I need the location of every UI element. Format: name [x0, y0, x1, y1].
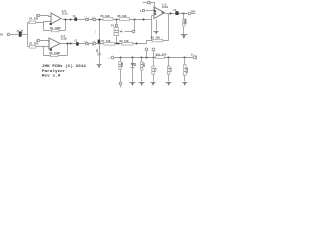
connector pad J1	[145, 48, 148, 51]
junction	[169, 12, 171, 14]
pin 2 number	[50, 23, 52, 25]
pad tick	[92, 43, 94, 46]
svg-text:D1: D1	[134, 62, 137, 66]
capacitor C7	[184, 65, 186, 76]
junction	[145, 56, 147, 58]
connector pad P1	[37, 14, 39, 16]
op-amp IC1A	[51, 13, 61, 24]
connector pad send B	[85, 42, 88, 45]
wire power rail	[114, 57, 193, 59]
svg-text:R1 22K: R1 22K	[29, 18, 38, 21]
resistor R3	[52, 29, 60, 32]
ground	[154, 31, 159, 33]
ground stub IC2	[156, 20, 158, 31]
wire	[28, 46, 50, 48]
connector tick	[150, 2, 152, 5]
ground	[97, 64, 102, 66]
wire feedback bottom A	[44, 30, 66, 32]
wire top corner pad	[143, 2, 148, 4]
wire	[146, 51, 148, 58]
connector pad LED	[119, 82, 122, 85]
capacitor C5	[152, 66, 154, 74]
op-amp IC2A	[154, 7, 165, 19]
wire	[22, 34, 28, 36]
wire	[10, 34, 19, 36]
resistor R5	[103, 18, 113, 21]
junction	[117, 42, 119, 44]
junction	[69, 42, 71, 44]
capacitor C2	[74, 17, 77, 21]
resistor R1	[29, 21, 36, 24]
potentiometer P1	[114, 28, 119, 36]
wire output row B	[61, 43, 147, 45]
connector pad 9V	[111, 56, 114, 59]
pin 1 number	[162, 12, 164, 14]
junction	[140, 56, 142, 58]
wire minus input stub	[152, 15, 155, 17]
wire row B to mixer	[147, 41, 152, 44]
junction	[131, 56, 133, 58]
svg-text:IC1A: IC1A	[62, 13, 69, 16]
wire drop from output	[183, 14, 185, 20]
wire stub	[120, 85, 122, 88]
junction	[135, 42, 137, 44]
capacitor C1	[19, 31, 22, 36]
pin 2 number	[154, 13, 156, 15]
resistor R11	[156, 56, 165, 59]
svg-text:100u: 100u	[186, 67, 189, 73]
connector pad top	[147, 1, 150, 4]
svg-text:C1: C1	[21, 29, 24, 33]
wire input trunk	[27, 23, 29, 47]
connector pad return B	[93, 42, 96, 45]
ground	[139, 82, 145, 84]
junction	[115, 18, 117, 20]
pad tick	[88, 43, 90, 46]
connector pad OUT	[188, 12, 191, 15]
wire	[184, 58, 186, 82]
ground	[151, 82, 156, 84]
svg-text:R2 22K: R2 22K	[29, 42, 38, 45]
wire	[146, 10, 155, 12]
capacitor C4	[175, 11, 178, 15]
svg-text:IC1B: IC1B	[61, 38, 68, 41]
junction	[64, 18, 66, 20]
junction	[98, 18, 100, 20]
wire	[120, 58, 122, 82]
svg-text:10K: 10K	[121, 62, 124, 67]
ground	[183, 82, 188, 84]
connector tick	[196, 56, 198, 60]
wire	[153, 58, 155, 82]
junction	[98, 42, 100, 44]
op-amp IC1B	[49, 38, 60, 49]
junction	[66, 42, 68, 44]
svg-text:JMK PCBs (C) 2014: JMK PCBs (C) 2014	[42, 64, 86, 69]
resistor R7	[104, 43, 115, 46]
capacitor C9	[98, 40, 101, 44]
junction	[119, 56, 121, 58]
wire feedback riser right C	[168, 14, 170, 41]
svg-text:OUT: OUT	[191, 10, 196, 13]
connector pad pot top	[115, 24, 117, 26]
junction	[152, 56, 154, 58]
potentiometer wiper arrow	[125, 31, 133, 33]
pad tick	[92, 18, 94, 21]
wire trunk to ground	[99, 20, 101, 65]
connector pad J2	[152, 48, 155, 51]
resistor R2	[29, 46, 36, 49]
junction	[133, 18, 135, 20]
svg-text:IC2A: IC2A	[162, 6, 169, 9]
pin 3 number	[154, 11, 156, 13]
connector pad J2 tick	[153, 48, 155, 49]
svg-text:47u: 47u	[170, 67, 173, 72]
capacitor C8 plates	[97, 53, 101, 55]
capacitor C6	[168, 66, 170, 75]
wire feedback riser left A	[43, 23, 45, 31]
wire feedback riser right B	[67, 44, 69, 56]
wire	[28, 22, 52, 23]
wire	[40, 41, 50, 42]
resistor R12	[119, 62, 121, 70]
wire feedback riser right A	[65, 20, 67, 31]
svg-text:Paralyzer: Paralyzer	[42, 69, 66, 74]
resistor R13	[141, 62, 143, 70]
junction	[98, 18, 100, 20]
ground	[181, 34, 188, 36]
junction	[182, 12, 184, 14]
svg-text:47u: 47u	[154, 67, 157, 72]
wire feedback bottom C	[152, 40, 169, 42]
wire	[183, 27, 185, 35]
wire	[153, 51, 155, 58]
junction	[167, 56, 169, 58]
connector pad P2	[37, 39, 39, 41]
junction	[115, 42, 117, 44]
resistor R9	[152, 39, 163, 42]
resistor R8	[122, 43, 133, 46]
wire feedback riser left C	[151, 16, 153, 41]
svg-text:P1: P1	[111, 25, 115, 28]
wire	[40, 16, 52, 17]
connector pad J1 tick	[146, 48, 148, 49]
connector pad IN	[7, 33, 10, 36]
wire	[191, 13, 196, 15]
ground	[130, 82, 136, 84]
resistor R10	[183, 20, 185, 27]
ground	[166, 82, 172, 84]
wire	[141, 58, 143, 82]
wire pot top stub	[116, 27, 118, 28]
connector pad wiper	[132, 30, 135, 33]
pad tick	[88, 18, 90, 21]
connector pad return A	[93, 18, 96, 21]
svg-text:Rev 1.0: Rev 1.0	[42, 74, 61, 78]
svg-text:4K7: 4K7	[143, 62, 146, 67]
junction	[142, 18, 144, 20]
wire feedback bottom B	[44, 55, 68, 57]
junction	[69, 18, 71, 20]
wire junction to pot top pad	[116, 20, 118, 25]
connector pad send A	[85, 18, 88, 21]
resistor R4	[51, 54, 59, 57]
svg-text:100K: 100K	[184, 18, 187, 25]
wire to plus input	[151, 3, 155, 11]
wire	[168, 58, 170, 82]
wire output row C	[165, 13, 189, 14]
capacitor C3	[76, 42, 79, 46]
wire feedback riser left B	[43, 47, 45, 56]
LED D1	[132, 58, 134, 64]
junction	[153, 9, 155, 11]
pin 6 number	[50, 49, 52, 51]
connector pad P3	[142, 9, 144, 11]
wire	[132, 68, 134, 83]
resistor R6	[120, 18, 130, 21]
wire pot bottom	[116, 36, 118, 44]
wire output row A	[62, 19, 152, 20]
wire drop to pot wiper	[134, 20, 136, 32]
connector pad OUT2	[193, 56, 196, 59]
junction	[183, 56, 185, 58]
